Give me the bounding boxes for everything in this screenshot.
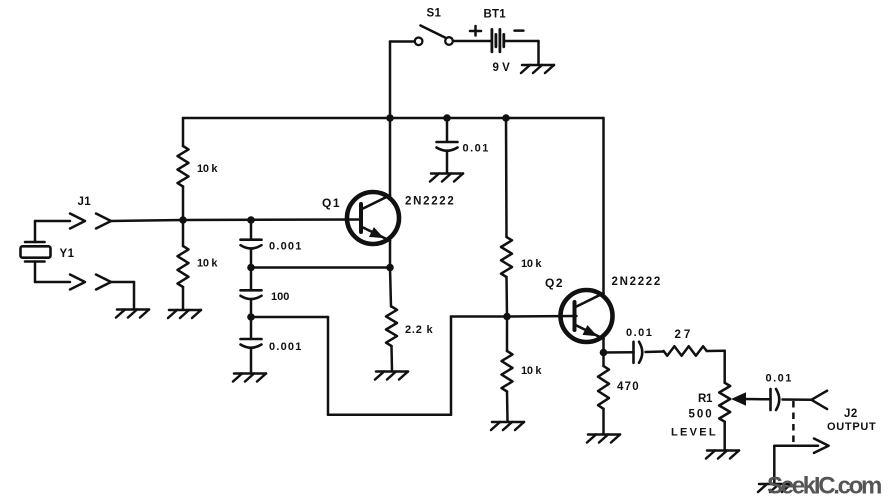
svg-text:2N2222: 2N2222: [405, 196, 455, 208]
capacitor 0.01 output: [769, 389, 772, 410]
J2 sleeve arrow: [774, 444, 818, 447]
svg-text:OUTPUT: OUTPUT: [827, 421, 876, 433]
junction bypass cap on rail: [443, 114, 451, 122]
wire V+ rail: [183, 117, 604, 120]
svg-text:LEVEL: LEVEL: [671, 427, 718, 439]
wire crystal top lead: [34, 221, 37, 242]
svg-text:10 k: 10 k: [197, 258, 218, 270]
svg-text:10 k: 10 k: [197, 163, 218, 175]
wire 2.2k to ground: [390, 346, 393, 371]
junction feedback lower node: [247, 313, 255, 321]
wire C 100 to lower node: [250, 299, 253, 317]
wire emitter to R 2.2k: [390, 268, 391, 307]
svg-text:0.01: 0.01: [626, 327, 653, 339]
wire feedback rise: [450, 317, 453, 415]
wire R27 to pot corner: [707, 349, 725, 352]
ground battery: [522, 64, 554, 67]
resistor 2.2k: [386, 307, 397, 347]
svg-text:10 k: 10 k: [521, 258, 542, 270]
R1 wiper arrow: [731, 392, 746, 405]
wire base node to divider lower: [506, 317, 509, 352]
crystal Y1: [25, 241, 45, 244]
wire Q2 emitter drop: [602, 339, 605, 353]
dashed sleeve link: [792, 401, 795, 445]
battery BT1: [490, 29, 493, 51]
switch S1 blade: [421, 26, 446, 38]
capacitor 0.001 upper: [241, 238, 262, 241]
svg-text:0.01: 0.01: [463, 143, 490, 155]
capacitor 100: [241, 289, 262, 292]
J1 jack contact top: [96, 214, 111, 229]
junction divider on rail: [502, 114, 510, 122]
junction J1 bias node: [179, 216, 187, 224]
wire emitter node to coupling cap: [604, 351, 634, 354]
wire node to C 0.001 upper: [250, 220, 253, 240]
ground left bias: [169, 309, 201, 312]
svg-text:SeekIC.com: SeekIC.com: [767, 473, 881, 500]
svg-text:J1: J1: [78, 196, 92, 208]
label - battery negative: [515, 29, 524, 32]
ground capacitor chain: [234, 372, 266, 375]
wire rail right drop to Q2 collector: [602, 118, 605, 294]
J1 plug arrow top: [70, 214, 85, 229]
resistor 10k divider upper: [501, 237, 512, 277]
ground 470: [588, 433, 620, 436]
transistor Q1: [347, 192, 399, 244]
wire J1 tip to bias node: [111, 220, 183, 221]
wire J1 sleeve to ground: [111, 281, 134, 284]
ground R1: [707, 449, 739, 452]
wire rail to R upper 10k: [182, 118, 185, 146]
J1 plug arrow bottom: [70, 275, 85, 290]
svg-text:9 V: 9 V: [493, 62, 511, 74]
wire C to emitter-node wire: [250, 249, 253, 268]
junction cap column top: [247, 216, 255, 224]
capacitor 0.001 lower: [241, 338, 262, 341]
svg-text:100: 100: [271, 291, 289, 303]
switch S1 throw contact: [445, 37, 453, 45]
J2 jack tip contact: [811, 391, 827, 409]
wire feedback bottom run: [328, 413, 451, 416]
resistor 27: [664, 346, 707, 356]
label + battery positive: [470, 30, 481, 33]
wire emitter node link: [251, 266, 390, 269]
svg-text:S1: S1: [427, 8, 442, 20]
wire feedback node to corner: [251, 316, 328, 319]
junction emitter feedback node: [247, 264, 255, 272]
capacitor 0.01 bypass: [437, 141, 458, 144]
ground J1 sleeve: [117, 308, 149, 311]
svg-text:J2: J2: [844, 408, 858, 420]
svg-text:Q1: Q1: [322, 196, 341, 210]
wire to C 100: [250, 268, 253, 291]
capacitor 0.01 coupling: [632, 342, 635, 363]
wire sleeve to ground: [773, 446, 776, 483]
ground bypass cap: [431, 172, 463, 175]
svg-text:27: 27: [675, 329, 694, 341]
wire feedback drop: [327, 317, 330, 415]
wire rail to divider 10k upper: [505, 118, 508, 237]
wire rail to bypass cap: [446, 118, 449, 142]
junction Q2 emitter node: [600, 349, 608, 357]
wire 470 to ground: [602, 409, 605, 434]
svg-text:BT1: BT1: [484, 9, 507, 21]
wire 10k to J1 node: [182, 187, 185, 221]
wire bias node to Q1 base: [183, 218, 361, 221]
wire cap to J2 tip: [783, 398, 812, 401]
transistor Q2: [561, 290, 613, 342]
J1 jack contact bottom: [96, 275, 111, 290]
wire base node to Q2: [507, 315, 577, 318]
svg-text:Q2: Q2: [545, 276, 564, 290]
wire lower 10k to ground: [182, 287, 185, 309]
switch S1 pole contact: [415, 38, 423, 46]
resistor 10k lower-left: [178, 246, 189, 287]
wire cap to R27: [646, 350, 664, 353]
wire Q1 collector to rail: [389, 118, 392, 196]
wire divider lower to ground: [506, 392, 509, 422]
wire battery negative to ground: [505, 40, 539, 43]
ground J2 sleeve: [759, 483, 791, 486]
wire to C 0.001 lower: [250, 317, 253, 339]
ground divider: [492, 421, 524, 424]
wire switch to battery: [454, 40, 490, 43]
svg-text:0.001: 0.001: [269, 241, 303, 253]
junction Q1 emitter node: [386, 264, 394, 272]
resistor 10k upper-left: [178, 146, 189, 187]
wire node to lower 10k: [182, 220, 185, 246]
ground 2.2k: [376, 370, 408, 373]
resistor 470: [598, 366, 609, 409]
svg-text:2N2222: 2N2222: [612, 276, 662, 288]
svg-text:500: 500: [689, 409, 714, 421]
wire feedback to Q2 base node: [451, 315, 507, 318]
svg-text:2.2 k: 2.2 k: [405, 324, 434, 336]
svg-text:10 k: 10 k: [521, 365, 542, 377]
junction Q2 base node: [503, 313, 511, 321]
junction S1/collector on rail: [386, 114, 394, 122]
wire divider upper to base node: [505, 277, 508, 317]
wire C lower to ground: [250, 348, 253, 373]
wire emitter node to R470: [602, 353, 605, 367]
resistor 10k divider lower: [502, 351, 513, 392]
svg-text:0.01: 0.01: [766, 373, 793, 385]
wire S1 branch riser: [389, 42, 392, 119]
svg-text:R1: R1: [698, 393, 713, 405]
wire crystal bottom lead: [35, 281, 70, 284]
potentiometer R1 element: [719, 383, 730, 422]
wire Q1 emitter drop: [389, 240, 392, 268]
svg-text:470: 470: [617, 381, 640, 393]
svg-text:Y1: Y1: [60, 248, 75, 260]
svg-text:0.001: 0.001: [269, 341, 303, 353]
wire bypass cap to ground: [446, 151, 449, 173]
wire R1 bottom to ground: [723, 422, 726, 450]
